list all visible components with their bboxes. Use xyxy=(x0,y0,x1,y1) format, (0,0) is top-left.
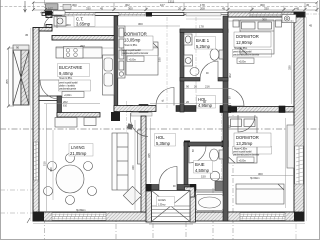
top band text block xyxy=(46,4,59,10)
living dining table xyxy=(56,165,84,193)
corner block bottom-right xyxy=(294,212,304,221)
svg-text:90: 90 xyxy=(16,46,20,50)
axis extension right of top wall xyxy=(305,13,320,15)
wall baie1 top xyxy=(180,29,228,33)
svg-text:107: 107 xyxy=(160,3,165,7)
wall below C.T. xyxy=(52,36,117,41)
right margin line xyxy=(306,17,308,221)
svg-text:pardoseala gresie: pardoseala gresie xyxy=(59,88,77,91)
baie1 toilet xyxy=(219,50,223,59)
svg-text:1315: 1315 xyxy=(168,0,175,3)
svg-text:150: 150 xyxy=(201,175,206,179)
wall kitchen bottom right leaf (living top) xyxy=(57,113,100,118)
svg-text:Hcam=2,85m: Hcam=2,85m xyxy=(59,78,72,80)
top exterior wall right part (thick hatched) xyxy=(228,12,305,17)
dim line kitchen xyxy=(56,47,114,49)
wall baie2 jamb blocks xyxy=(184,141,190,148)
door smudge mark xyxy=(127,123,133,129)
svg-text:335: 335 xyxy=(147,153,151,158)
svg-text:12,90mp: 12,90mp xyxy=(236,40,253,45)
hol bottom wall left segment xyxy=(146,185,159,191)
svg-text:510: 510 xyxy=(43,161,47,166)
label boxes xyxy=(58,16,216,207)
top band roof dashed line xyxy=(0,6,317,8)
inner dim line dormitor2 right xyxy=(291,20,293,104)
wall acces right xyxy=(190,191,196,222)
svg-text:HOL: HOL xyxy=(156,135,165,140)
left wall window living xyxy=(34,142,39,180)
inner dim line dormitor3 right xyxy=(285,118,287,208)
svg-text:BAIE 1: BAIE 1 xyxy=(196,38,210,43)
top wall niche segment xyxy=(184,13,228,15)
svg-text:355: 355 xyxy=(5,79,9,84)
axis line horizontal main xyxy=(0,128,320,130)
dim line baie1 width xyxy=(184,28,223,30)
svg-text:107: 107 xyxy=(48,6,53,10)
axis vertical D acces xyxy=(185,192,187,240)
dim vertical living left xyxy=(52,130,54,200)
dormitor3 dresser row xyxy=(236,184,284,204)
block baie2/acces junction xyxy=(185,187,195,197)
baie2 toilet xyxy=(219,150,223,159)
terrace top dim xyxy=(13,49,29,51)
svg-text:pardoseala parchet lamelar: pardoseala parchet lamelar xyxy=(233,154,259,157)
terrace pillar block outside left wall xyxy=(13,33,29,105)
svg-text:pardoseala parchet lamelar: pardoseala parchet lamelar xyxy=(233,54,259,57)
wall acces left xyxy=(146,191,152,222)
axis vertical B below xyxy=(115,214,117,240)
door dormitor3 xyxy=(238,115,255,132)
hol niche line xyxy=(186,18,221,20)
baie1 bidet xyxy=(190,68,199,76)
wall baie1/dormitor2 xyxy=(223,16,228,112)
dim line baie2 xyxy=(188,178,223,180)
svg-text:13,05mp: 13,05mp xyxy=(124,38,141,43)
hol bottom wall right segment xyxy=(177,185,196,191)
door acces/hol xyxy=(159,167,177,185)
corner block top-left xyxy=(45,11,52,16)
svg-text:Hp=80cm: Hp=80cm xyxy=(76,210,86,212)
right wall window dormitor3 xyxy=(295,146,303,184)
wall living/hol xyxy=(141,116,146,212)
wall baie2 left xyxy=(184,142,188,192)
axis vertical G right xyxy=(295,14,297,240)
svg-text:810: 810 xyxy=(63,104,68,107)
svg-text:+0,00m: +0,00m xyxy=(239,160,246,162)
wall kitchen step xyxy=(57,96,62,117)
dim vertical left inner xyxy=(46,104,48,212)
entry steps below acces xyxy=(149,222,193,224)
dim line kitchen bottom xyxy=(44,103,100,105)
svg-text:330: 330 xyxy=(264,6,269,10)
svg-text:Hcam=2,85m: Hcam=2,85m xyxy=(234,149,247,151)
dim line C.T. width xyxy=(52,26,114,28)
svg-text:DORMITOR: DORMITOR xyxy=(236,34,259,39)
top band numbers xyxy=(48,0,310,10)
kitchen counter xyxy=(56,47,102,58)
svg-text:pereti vopsiti lavabil: pereti vopsiti lavabil xyxy=(233,151,252,154)
corner block top-right xyxy=(294,12,304,18)
wall baie1 bottom xyxy=(180,78,200,82)
bottom wall window dormitor3 xyxy=(240,213,285,220)
svg-text:5,35mp: 5,35mp xyxy=(156,141,171,146)
top exterior wall left part (thin, with windows) xyxy=(42,13,184,16)
axis vertical baie2 left xyxy=(221,112,223,188)
left exterior wall xyxy=(33,28,39,222)
svg-text:pardoseala parchet lamelar: pardoseala parchet lamelar xyxy=(122,52,148,55)
svg-text:LIVING: LIVING xyxy=(71,145,85,150)
svg-text:+0,00m: +0,00m xyxy=(239,61,246,63)
top band ticks xyxy=(32,1,319,11)
svg-text:Hcam=2,85m: Hcam=2,85m xyxy=(124,45,137,47)
dim line hol passage xyxy=(150,103,231,105)
block wall A small xyxy=(127,105,134,112)
svg-text:90: 90 xyxy=(186,85,190,89)
baie2 tub platform line xyxy=(184,189,228,191)
top wall niche band baie1 xyxy=(186,13,221,16)
wall baie2 top xyxy=(184,142,228,146)
wall A segment stub xyxy=(176,106,196,112)
door C.T. entry xyxy=(44,15,57,28)
svg-text:pereti vopsiti lavabil: pereti vopsiti lavabil xyxy=(59,82,78,85)
baie1 washer xyxy=(184,55,193,66)
door dormitor2 xyxy=(226,88,244,106)
left finish line xyxy=(30,28,32,221)
corner block bottom-left xyxy=(33,212,44,222)
svg-text:203: 203 xyxy=(80,44,85,48)
dormitor2 nightstand right xyxy=(276,20,282,27)
right exterior wall xyxy=(294,12,304,221)
wall hol/baie2 to bottom xyxy=(223,112,228,221)
svg-text:13,25mp: 13,25mp xyxy=(236,141,253,146)
svg-text:20: 20 xyxy=(186,100,190,104)
svg-text:45: 45 xyxy=(100,6,104,10)
paragraph boxes xyxy=(59,48,272,154)
bottom exterior wall xyxy=(33,212,304,221)
dormitor1 wardrobe xyxy=(118,26,125,78)
door kitchen xyxy=(40,80,59,99)
svg-text:45: 45 xyxy=(296,6,300,10)
dormitor2 boiler symbol xyxy=(282,15,296,23)
svg-text:9,40mp: 9,40mp xyxy=(59,71,74,76)
left wall of C.T. room (top stub) xyxy=(46,12,52,18)
svg-text:plafon v. lavabila: plafon v. lavabila xyxy=(59,86,76,88)
block acces right top xyxy=(190,184,196,191)
top dimension band xyxy=(33,3,317,12)
svg-text:300: 300 xyxy=(138,22,143,26)
junction block kitchen wall xyxy=(111,112,120,121)
label DORMITOR3 xyxy=(233,133,271,163)
axis vertical hol2 segment xyxy=(195,17,197,106)
svg-text:300: 300 xyxy=(72,3,77,7)
dim line dormitor1 width xyxy=(117,25,180,27)
baie2 sink xyxy=(210,171,220,181)
dim line dormitor3 xyxy=(231,175,294,177)
svg-text:208: 208 xyxy=(200,6,205,10)
svg-text:300: 300 xyxy=(258,172,263,176)
svg-text:45: 45 xyxy=(309,24,313,28)
kitchen sink unit xyxy=(103,55,115,95)
boiler C.T. xyxy=(54,17,66,27)
door width labels xyxy=(162,73,232,188)
wall A block mid xyxy=(279,106,285,113)
dim vertical hol2 xyxy=(150,118,152,183)
dim line hol xyxy=(184,88,228,90)
svg-text:+0,00m: +0,00m xyxy=(64,95,71,97)
jog wall top-left xyxy=(33,28,52,32)
kitchen stove xyxy=(64,47,84,59)
dim vertical living right xyxy=(134,120,136,210)
living plant diamond xyxy=(123,186,141,204)
wall A block left2 xyxy=(231,107,237,113)
baie2 bathtub xyxy=(196,195,223,211)
dormitor3 bed (vertical) xyxy=(229,117,258,163)
wall A segment dormitor2/3 xyxy=(231,107,294,113)
svg-text:BUCATARIE: BUCATARIE xyxy=(59,65,83,70)
top wall block at dormitor1 window end xyxy=(146,12,152,17)
label DORMITOR1 xyxy=(122,32,153,62)
axis line left margin bottom xyxy=(0,212,33,214)
svg-text:BAIE: BAIE xyxy=(195,162,205,167)
living chairs xyxy=(48,162,57,171)
svg-text:21,05mp: 21,05mp xyxy=(70,151,87,156)
top band level mark arrow xyxy=(24,1,27,12)
svg-text:302: 302 xyxy=(228,73,232,78)
door dormitor1 xyxy=(156,88,174,106)
door baie1 xyxy=(200,61,218,79)
svg-text:Hcam=2,85m: Hcam=2,85m xyxy=(234,48,247,50)
svg-text:300: 300 xyxy=(128,6,133,10)
svg-text:1,35mp: 1,35mp xyxy=(158,205,166,207)
wall kitchen/dormitor1 xyxy=(114,16,118,112)
svg-text:440: 440 xyxy=(49,167,53,172)
svg-text:+0,00A: +0,00A xyxy=(40,12,47,15)
wall dormitor1/baie1 xyxy=(180,29,184,112)
dormitor2 nightstand left xyxy=(233,20,239,27)
dormitor3 wardrobe right xyxy=(287,125,294,168)
svg-text:3,65mp: 3,65mp xyxy=(76,22,91,27)
wall kitchen bottom left leaf xyxy=(39,96,61,101)
living sofa xyxy=(112,133,128,190)
svg-text:DORMITOR: DORMITOR xyxy=(124,32,147,37)
svg-text:5,25mp: 5,25mp xyxy=(196,44,211,49)
bottom wall window living xyxy=(52,213,106,220)
svg-text:20: 20 xyxy=(194,85,198,89)
svg-text:4,50mp: 4,50mp xyxy=(195,168,210,173)
svg-text:+0,00m: +0,00m xyxy=(129,59,136,61)
svg-text:330: 330 xyxy=(86,6,91,10)
baie2 washer dark xyxy=(215,181,223,191)
svg-text:DORMITOR: DORMITOR xyxy=(236,135,259,140)
top wall window dormitor1 xyxy=(119,13,146,16)
svg-text:300: 300 xyxy=(262,17,267,21)
dormitor1 bed xyxy=(126,42,158,75)
dormitor2 bed xyxy=(240,20,274,54)
svg-text:330: 330 xyxy=(288,65,292,70)
axis vertical A xyxy=(44,0,46,12)
window sill ticks living bottom xyxy=(34,13,303,220)
svg-text:190: 190 xyxy=(158,57,162,62)
door baie2 xyxy=(189,146,206,163)
acces X mark xyxy=(152,191,191,222)
axis line left margin lower xyxy=(0,189,33,191)
svg-text:216: 216 xyxy=(205,85,210,89)
axis vertical wallA left xyxy=(126,101,128,138)
block acces left top xyxy=(146,184,152,191)
bottom-left outside tick xyxy=(27,218,30,223)
pier living top-right xyxy=(139,105,148,113)
svg-text:340: 340 xyxy=(131,165,135,170)
bottom eave line xyxy=(33,222,305,224)
svg-text:pereti vopsiti lavabil: pereti vopsiti lavabil xyxy=(233,51,252,54)
wall A block hol east xyxy=(220,106,231,113)
left wall of C.T. room (bottom stub) xyxy=(46,25,52,32)
baie1 sink xyxy=(184,34,192,45)
label DORMITOR2 xyxy=(233,32,271,64)
svg-text:202: 202 xyxy=(63,100,68,104)
svg-text:45: 45 xyxy=(222,6,226,10)
door living xyxy=(130,113,148,137)
svg-text:45: 45 xyxy=(25,33,29,37)
left margin dim line xyxy=(9,48,15,106)
top wall window kitchen xyxy=(62,13,95,16)
living TV unit xyxy=(138,130,142,164)
svg-text:ACCES: ACCES xyxy=(158,199,166,202)
top wall window dormitor2 xyxy=(250,13,282,16)
svg-text:Hp=90cm: Hp=90cm xyxy=(250,178,260,180)
svg-text:pereti vopsiti lavabil: pereti vopsiti lavabil xyxy=(122,49,141,52)
axis vertical hol segment xyxy=(166,17,168,108)
svg-text:90: 90 xyxy=(203,100,207,104)
wall A segment dormitor1 bottom xyxy=(114,106,156,112)
svg-text:20: 20 xyxy=(178,6,182,10)
axis vertical F xyxy=(232,108,234,240)
living sideboard xyxy=(55,118,77,128)
svg-text:45: 45 xyxy=(306,3,310,7)
svg-text:300: 300 xyxy=(66,23,71,27)
svg-text:178: 178 xyxy=(199,25,204,29)
axis vertical C below xyxy=(152,213,154,240)
dim line dormitor2 width xyxy=(228,20,294,22)
threshold living/hol xyxy=(131,113,152,117)
axis vertical E xyxy=(212,188,214,240)
